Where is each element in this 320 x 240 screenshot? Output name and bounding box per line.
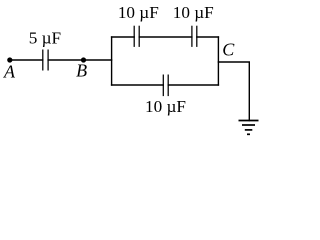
node B [81, 57, 86, 62]
capacitor C1 5uF [43, 50, 48, 71]
wire C to ground drop [218, 62, 249, 121]
svg-text:C: C [222, 40, 235, 60]
wire right branch vertical [217, 37, 219, 85]
wire bottom-left segment [112, 84, 164, 86]
wire C1 to B to box [48, 59, 112, 61]
node A [7, 57, 12, 62]
ground [239, 121, 259, 135]
capacitor C3 10uF [192, 26, 197, 47]
wire top-right segment [197, 36, 219, 38]
wire bottom-right segment [168, 84, 218, 86]
capacitor C4 10uF [163, 75, 168, 97]
svg-text:B: B [76, 61, 87, 81]
wire top-left segment [112, 36, 135, 38]
wire left branch vertical [111, 37, 113, 85]
svg-text:10 µF: 10 µF [118, 3, 159, 22]
capacitor C2 10uF [134, 26, 139, 47]
wire A to C1 [10, 59, 43, 61]
svg-text:A: A [3, 62, 16, 82]
svg-text:5 µF: 5 µF [29, 29, 61, 48]
svg-text:10 µF: 10 µF [173, 3, 214, 22]
svg-text:10 µF: 10 µF [145, 97, 186, 116]
wire between top capacitors [139, 36, 192, 38]
